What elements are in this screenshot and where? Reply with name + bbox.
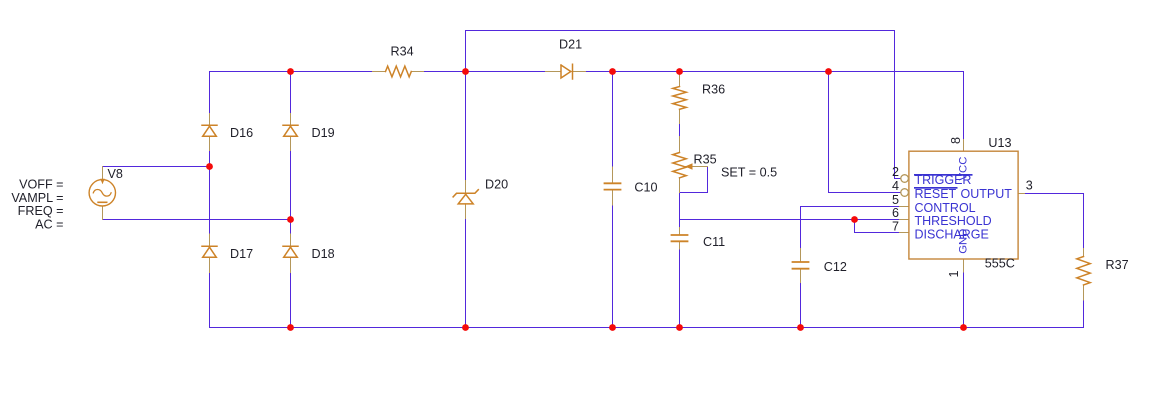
wire D17 leg lower bbox=[209, 273, 211, 328]
wire D16 pin leads bbox=[209, 114, 211, 126]
wire D17 pin leads bbox=[209, 234, 211, 246]
svg-text:D16: D16 bbox=[230, 126, 253, 140]
wire U13 pin 7 stub bbox=[900, 232, 909, 234]
diode D18 bbox=[283, 246, 298, 257]
wire D16 leg upper bbox=[209, 72, 211, 114]
wire D19 pin leads bbox=[290, 114, 292, 126]
pin name RESET overbar bbox=[914, 187, 958, 189]
wire R35 wiper lead bbox=[686, 166, 708, 168]
wire C10 lower bbox=[612, 205, 614, 328]
svg-text:OUTPUT: OUTPUT bbox=[961, 187, 1013, 201]
diode D16 bbox=[202, 125, 217, 136]
voltage source V8 minus mark bbox=[98, 201, 107, 203]
resistor R34 bbox=[386, 66, 412, 77]
capacitor C12 bbox=[793, 262, 809, 269]
svg-text:D20: D20 bbox=[485, 177, 508, 191]
svg-text:8: 8 bbox=[949, 137, 963, 144]
voltage source V8 plus arrow bbox=[100, 179, 105, 184]
wire pin 3 down to R37 bbox=[1083, 194, 1085, 249]
svg-text:R34: R34 bbox=[391, 45, 414, 59]
svg-text:C12: C12 bbox=[824, 260, 847, 274]
wire R36-R35 link bbox=[679, 124, 681, 137]
node A junction bbox=[462, 68, 469, 75]
svg-text:VAMPL =: VAMPL = bbox=[11, 191, 63, 205]
node C10 top junction bbox=[609, 68, 616, 75]
node V8 minus junction bbox=[287, 216, 294, 223]
wire D21 pin leads bbox=[546, 71, 562, 73]
svg-text:RESET: RESET bbox=[915, 187, 957, 201]
svg-text:555C: 555C bbox=[985, 257, 1015, 271]
svg-text:DISCHARGE: DISCHARGE bbox=[915, 227, 989, 241]
svg-text:R37: R37 bbox=[1106, 258, 1129, 272]
wire R34 pin leads bbox=[373, 71, 386, 73]
svg-text:THRESHOLD: THRESHOLD bbox=[915, 214, 992, 228]
node D19 top junction bbox=[287, 68, 294, 75]
wire TRIGGER drop bbox=[895, 31, 902, 179]
wire CONTROL horizontal bbox=[801, 206, 900, 208]
wire top bus node A to TRIGGER bbox=[466, 30, 895, 32]
wire bus2 left segment D16 top to R34 bbox=[210, 71, 373, 73]
svg-text:GND: GND bbox=[957, 229, 969, 254]
wire THRESHOLD net horizontal bbox=[680, 219, 900, 221]
wire R35 bottom to C11 bbox=[679, 193, 681, 228]
node ground pin1 junction bbox=[960, 324, 967, 331]
node ground C10 junction bbox=[609, 324, 616, 331]
svg-text:VCC: VCC bbox=[958, 157, 970, 181]
svg-text:V8: V8 bbox=[108, 167, 123, 181]
wire U13 pin 5 stub bbox=[900, 206, 909, 208]
node ground C11 junction bbox=[676, 324, 683, 331]
wire V8 plus to bridge left bbox=[103, 166, 210, 168]
potentiometer R35 bbox=[673, 153, 686, 178]
svg-text:C11: C11 bbox=[703, 235, 725, 249]
wire ground bus bbox=[210, 327, 1084, 329]
wire VCC drop to pin 8 bbox=[963, 72, 965, 140]
svg-text:FREQ =: FREQ = bbox=[18, 204, 64, 218]
svg-text:D21: D21 bbox=[559, 38, 582, 52]
wire bus2 R34 to D21 bbox=[424, 71, 546, 73]
svg-text:D17: D17 bbox=[230, 247, 253, 261]
wire OUTPUT pin 3 horizontal bbox=[1025, 193, 1084, 195]
svg-text:SET = 0.5: SET = 0.5 bbox=[721, 166, 777, 180]
capacitor C11 bbox=[672, 235, 688, 241]
svg-text:AC =: AC = bbox=[35, 218, 63, 232]
wire R37 pin leads bbox=[1083, 249, 1085, 257]
wire D20 to ground bus bbox=[465, 219, 467, 328]
svg-text:R36: R36 bbox=[702, 83, 725, 97]
wire node A vertical drop bbox=[465, 31, 467, 72]
wire CONTROL down to C12 bbox=[800, 207, 802, 249]
U13 pin 4 inversion bubble bbox=[901, 189, 909, 197]
wire RESET drop bbox=[829, 72, 902, 193]
wire V8 pin leads bbox=[102, 167, 104, 184]
resistor R36 bbox=[673, 87, 686, 110]
wire V8 minus to bridge right bbox=[103, 219, 291, 221]
diode D21 bbox=[561, 64, 573, 79]
node ground C12 junction bbox=[797, 324, 804, 331]
wire node A down to D20 bbox=[465, 72, 467, 181]
svg-text:C10: C10 bbox=[634, 181, 657, 195]
wire C10 pin leads bbox=[612, 167, 614, 183]
pin name TRIGGER overbar bbox=[914, 174, 973, 176]
svg-text:6: 6 bbox=[892, 206, 899, 220]
voltage source V8 circle bbox=[89, 180, 115, 206]
potentiometer R35 wiper arrow bbox=[685, 163, 693, 169]
svg-text:7: 7 bbox=[892, 219, 899, 233]
svg-text:1: 1 bbox=[947, 270, 961, 277]
wire C11 pin leads bbox=[679, 228, 681, 235]
wire D18 leg lower bbox=[290, 273, 292, 328]
wire R36 pin leads bbox=[679, 72, 681, 87]
wire C12 lower bbox=[800, 283, 802, 328]
wire U13 pin 8 stub bbox=[963, 140, 965, 152]
wire R35 pin leads bbox=[679, 137, 681, 153]
svg-text:VOFF =: VOFF = bbox=[19, 178, 63, 192]
wire D19 leg upper bbox=[290, 72, 292, 114]
wire U13 pin 1 stub bbox=[963, 259, 965, 272]
node RESET branch junction bbox=[825, 68, 832, 75]
wire D18 pin leads bbox=[290, 234, 292, 246]
node V8 plus junction bbox=[206, 163, 213, 170]
svg-text:D18: D18 bbox=[312, 247, 335, 261]
svg-text:2: 2 bbox=[892, 165, 899, 179]
wire C12 pin leads bbox=[800, 249, 802, 262]
svg-text:U13: U13 bbox=[988, 136, 1011, 150]
wire pin 1 to ground bus bbox=[963, 272, 965, 328]
wire bus2 D21 cathode to VCC corner bbox=[586, 71, 964, 73]
node THRESHOLD-DISCHARGE junction bbox=[851, 216, 858, 223]
svg-text:4: 4 bbox=[892, 179, 899, 193]
wire R37 to ground bus bbox=[1083, 300, 1085, 328]
wire D20 pin leads bbox=[465, 181, 467, 193]
U13 pin 2 inversion bubble bbox=[901, 175, 909, 183]
zener diode D20 bbox=[453, 190, 478, 204]
IC U13 555 timer body box bbox=[909, 151, 1018, 259]
node R36 top junction bbox=[676, 68, 683, 75]
svg-text:CONTROL: CONTROL bbox=[915, 201, 976, 215]
wire U13 pin 3 stub bbox=[1018, 193, 1025, 195]
resistor R37 bbox=[1077, 257, 1090, 285]
node ground D18 junction bbox=[287, 324, 294, 331]
svg-text:3: 3 bbox=[1026, 179, 1033, 193]
svg-text:5: 5 bbox=[892, 193, 899, 207]
capacitor C10 bbox=[605, 183, 621, 189]
svg-text:D19: D19 bbox=[312, 126, 335, 140]
wire THRESHOLD to DISCHARGE jog bbox=[855, 220, 900, 233]
wire C10 upper bbox=[612, 72, 614, 168]
voltage source V8 sine bbox=[93, 190, 111, 197]
node ground D20 junction bbox=[462, 324, 469, 331]
wire U13 pin 6 stub bbox=[900, 219, 909, 221]
svg-text:R35: R35 bbox=[694, 153, 717, 167]
wire D19-D18 middle leg bbox=[290, 151, 292, 235]
wire D16-D17 middle leg bbox=[209, 151, 211, 235]
diode D17 bbox=[202, 246, 217, 257]
wire C11 lower bbox=[679, 249, 681, 328]
wire R35 wiper loop bbox=[680, 167, 708, 193]
diode D19 bbox=[283, 125, 298, 136]
